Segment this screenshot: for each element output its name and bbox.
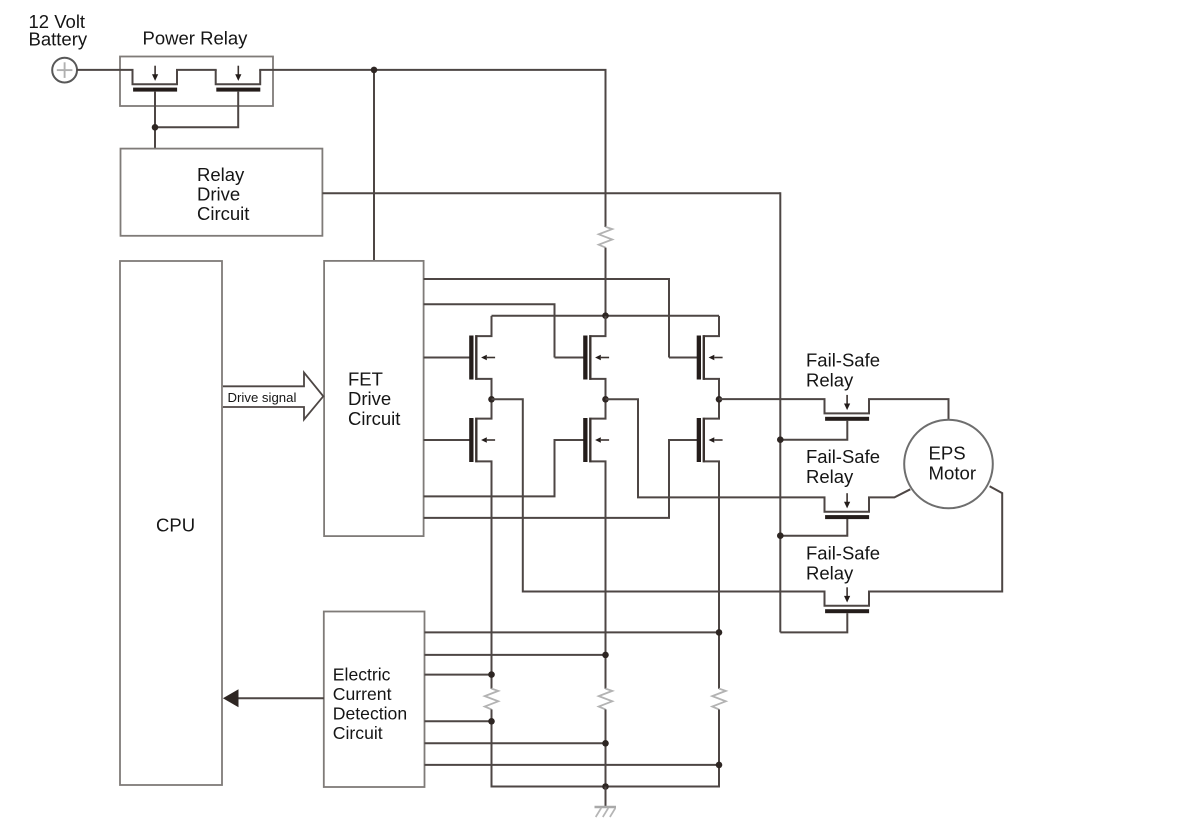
resistor R3 (phase 2 sense) (599, 689, 613, 710)
motor M1 (EPS Motor) (904, 420, 993, 509)
wire between relay contacts (176, 69, 217, 71)
wire fail-safe relay gate bus (vertical) (779, 192, 781, 632)
svg-text:Detection: Detection (333, 704, 407, 724)
transistor Q6 (phase 3 low side) (697, 398, 723, 481)
fail-safe relay contact K2 (825, 395, 870, 421)
wire fail-safe relay 3 gate (780, 613, 847, 632)
junction relay coil tie (152, 124, 159, 131)
wire supply drop to FET drive circuit (373, 70, 375, 261)
wire phase 1 column to ground bus (491, 709, 493, 787)
wire bridge top rail (492, 315, 720, 317)
wire sense tap 2 high (425, 654, 606, 656)
wire fail-safe relay 2 gate (780, 519, 847, 536)
CPU box (120, 261, 222, 785)
junction phase 1 node (488, 396, 495, 403)
svg-text:Fail-Safe: Fail-Safe (806, 446, 880, 467)
wire ground bus (492, 786, 720, 788)
junction gate bus relay 1 (777, 436, 784, 443)
wire sense tap 2 low (425, 742, 606, 744)
svg-text:Battery: Battery (29, 29, 88, 50)
label: Fail-Safe Relay 2 (806, 446, 880, 487)
electric current detection circuit box (324, 612, 425, 788)
svg-text:Drive: Drive (348, 388, 391, 409)
wire phase 1 to fail-safe relay 3 (492, 399, 826, 591)
svg-text:Fail-Safe: Fail-Safe (806, 350, 880, 371)
junction sense tap 3 low (716, 762, 723, 769)
wire phase 2 to fail-safe relay 2 (606, 399, 826, 497)
svg-text:EPS: EPS (929, 443, 966, 464)
ground (595, 807, 617, 817)
junction ground bus center (602, 783, 609, 790)
battery B1 (+ terminal) (52, 58, 77, 83)
wire phase 1 column to sense resistor (491, 481, 493, 689)
fail-safe relay contact K3 (825, 493, 870, 519)
svg-text:CPU: CPU (156, 515, 195, 536)
wire relay K1a coil drop (154, 91, 156, 149)
resistor R4 (phase 3 sense) (712, 689, 726, 710)
junction supply to rail (602, 312, 609, 319)
wire gate lead Q3 high (669, 357, 697, 359)
wire supply column upper (605, 70, 607, 227)
label: 12 Volt Battery (29, 11, 88, 50)
transistor Q1 (phase 1 high side) (469, 316, 495, 399)
wire phase 2 column to ground bus (605, 709, 607, 786)
wire gate stub Q3 high (424, 279, 669, 358)
transistor Q4 (phase 1 low side) (469, 398, 495, 481)
wire fail-safe relay 2 to motor left (868, 489, 910, 497)
wire ground stub (605, 787, 607, 807)
svg-text:Relay: Relay (197, 164, 245, 185)
resistor R1 (supply) (599, 227, 613, 248)
wire relay K1b coil drop (155, 91, 238, 127)
wire gate stub Q1 low (424, 439, 470, 441)
wire fail-safe relay 1 gate (780, 421, 847, 440)
svg-text:Current: Current (333, 684, 392, 704)
junction sense tap 3 high (716, 629, 723, 636)
transistor Q5 (phase 2 low side) (583, 398, 609, 481)
wire relay drive circuit to fail-safe relay bus (322, 192, 780, 194)
svg-text:Motor: Motor (929, 463, 977, 484)
junction phase 3 node (716, 396, 723, 403)
transistor Q3 (phase 3 high side) (697, 316, 723, 399)
wire fail-safe relay 1 to motor top (868, 399, 949, 420)
wire sense tap 3 low (425, 764, 720, 766)
junction sense tap 1 high (488, 671, 495, 678)
junction phase 2 node (602, 396, 609, 403)
wire battery to power relay (77, 69, 134, 71)
svg-text:Circuit: Circuit (348, 408, 400, 429)
wire phase 3 to fail-safe relay 1 (719, 398, 826, 400)
svg-text:Relay: Relay (806, 466, 854, 487)
junction sense tap 2 high (602, 652, 609, 659)
svg-text:Relay: Relay (806, 563, 854, 584)
resistor R2 (phase 1 sense) (485, 689, 499, 710)
wire phase 3 column to ground bus (718, 709, 720, 787)
fail-safe relay contact K4 (825, 587, 870, 613)
svg-text:FET: FET (348, 368, 383, 389)
label: Fail-Safe Relay 1 (806, 350, 880, 391)
svg-text:Electric: Electric (333, 665, 391, 685)
wire fail-safe relay 3 to motor right (868, 486, 1002, 591)
junction sense tap 1 low (488, 718, 495, 725)
wire power relay to supply column (259, 69, 606, 71)
wire gate stub Q2 high (424, 304, 555, 357)
wire current detection to CPU (236, 697, 324, 699)
wire phase 3 column to sense resistor (718, 481, 720, 689)
svg-text:Fail-Safe: Fail-Safe (806, 543, 880, 564)
wire sense tap 1 low (425, 720, 492, 722)
drive signal block arrow (223, 373, 323, 420)
relay contact K1a (133, 66, 178, 92)
label: Fail-Safe Relay 3 (806, 543, 880, 584)
wire phase 2 column to sense resistor (605, 481, 607, 689)
junction at supply tap (371, 67, 378, 74)
junction sense tap 2 low (602, 740, 609, 747)
transistor Q2 (phase 2 high side) (583, 316, 609, 399)
relay drive circuit box (121, 149, 323, 236)
svg-text:Circuit: Circuit (197, 203, 249, 224)
wire gate lead Q2 high (555, 357, 584, 359)
wire resistor to bridge rail (605, 248, 607, 317)
wire gate stub Q3 low (424, 440, 697, 518)
junction gate bus relay 2 (777, 532, 784, 539)
svg-text:Drive: Drive (197, 184, 240, 205)
wire sense tap 1 high (425, 674, 492, 676)
arrowhead current detection to CPU (223, 689, 239, 707)
wire gate stub Q1 high (424, 357, 470, 359)
svg-text:Circuit: Circuit (333, 723, 383, 743)
svg-text:Relay: Relay (806, 370, 854, 391)
svg-text:Power Relay: Power Relay (143, 28, 249, 49)
power relay box (120, 57, 273, 107)
wire gate stub Q2 low (424, 440, 584, 496)
wire sense tap 3 high (425, 631, 720, 633)
relay contact K1b (216, 66, 261, 92)
FET drive circuit box (324, 261, 424, 536)
svg-text:Drive signal: Drive signal (228, 390, 297, 405)
